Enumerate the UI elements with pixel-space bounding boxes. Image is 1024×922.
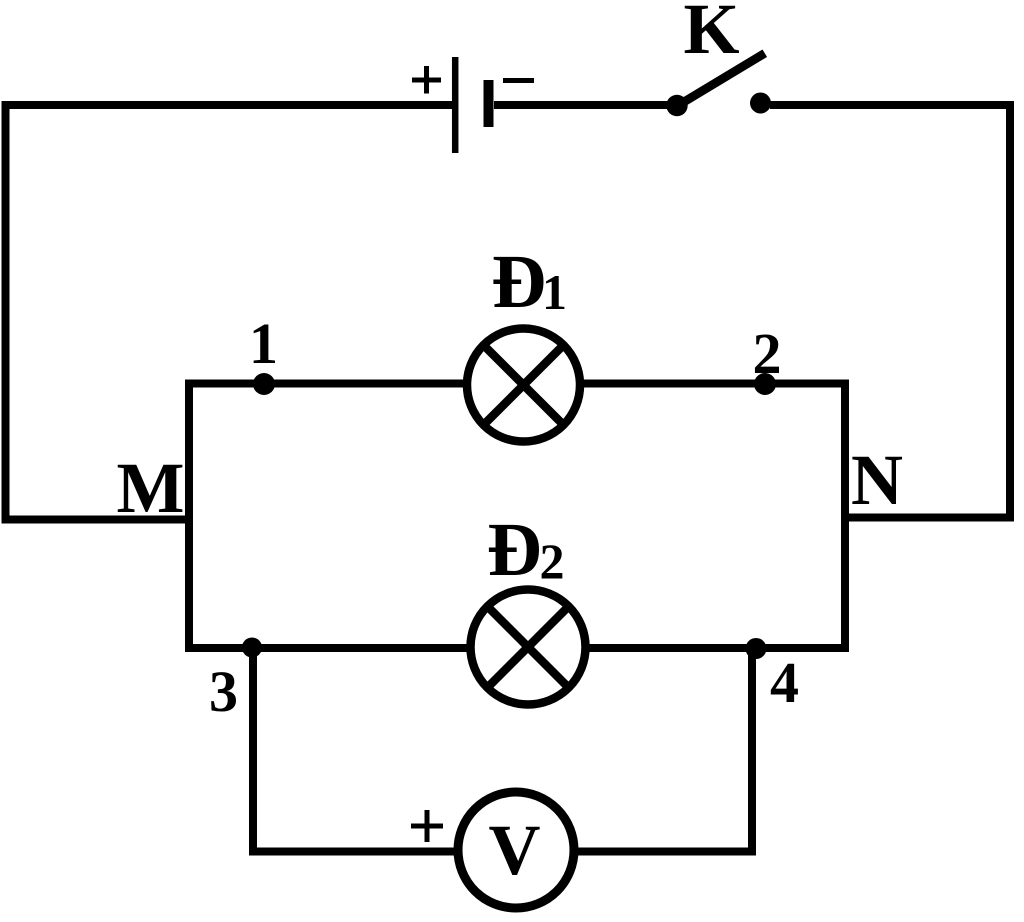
wire: top branch left (node 1 to lamp D1) <box>185 380 465 388</box>
switch K right contact <box>750 93 771 114</box>
lamp D1 cross <box>484 345 564 425</box>
wire: inner box right vertical (N junction) <box>841 380 849 653</box>
svg-text:2: 2 <box>753 321 782 386</box>
node 2 dot <box>754 373 776 395</box>
wire: battery minus to switch left contact <box>494 101 670 109</box>
lamp D2 cross <box>487 606 568 687</box>
svg-text:Đ: Đ <box>487 508 542 592</box>
wire: switch right contact to top-right corner down to N row <box>770 105 1010 518</box>
svg-text:4: 4 <box>770 650 799 715</box>
svg-text:V: V <box>489 810 541 890</box>
wire: node 3 stub down to voltmeter row <box>249 647 257 856</box>
svg-text:3: 3 <box>209 659 238 724</box>
battery negative short plate <box>484 80 494 127</box>
node 1 dot <box>253 373 275 395</box>
svg-text:K: K <box>683 0 739 69</box>
svg-text:2: 2 <box>540 533 565 589</box>
wire: voltmeter row left <box>253 848 458 856</box>
battery positive long plate <box>452 57 459 153</box>
node 4 dot <box>746 638 767 659</box>
lamp D1 circle <box>467 329 580 442</box>
svg-text:Đ: Đ <box>492 240 547 324</box>
wire: voltmeter row right <box>575 848 756 856</box>
svg-text:1: 1 <box>542 264 567 320</box>
wire: top branch right (lamp D1 to node 2) <box>583 380 849 388</box>
wire: left outer loop (M row to top-left corner to battery +) <box>6 105 453 520</box>
voltmeter + sign <box>411 810 443 842</box>
wire: inner box left vertical (M junction) <box>185 380 193 653</box>
battery + sign <box>412 66 441 94</box>
wire: bottom branch left (node 3 to lamp D2) <box>185 644 468 652</box>
svg-text:M: M <box>117 448 185 528</box>
switch K left contact <box>666 95 687 116</box>
battery - sign <box>503 78 534 83</box>
svg-text:1: 1 <box>249 311 278 376</box>
wire: node 4 stub down to voltmeter row <box>748 648 756 856</box>
svg-text:N: N <box>851 440 903 520</box>
node 3 dot <box>242 638 262 658</box>
voltmeter V circle <box>458 792 574 908</box>
switch K lever <box>678 56 761 106</box>
wire: bottom branch right (lamp D2 to node 4) <box>588 644 849 652</box>
lamp D2 circle <box>471 590 586 705</box>
